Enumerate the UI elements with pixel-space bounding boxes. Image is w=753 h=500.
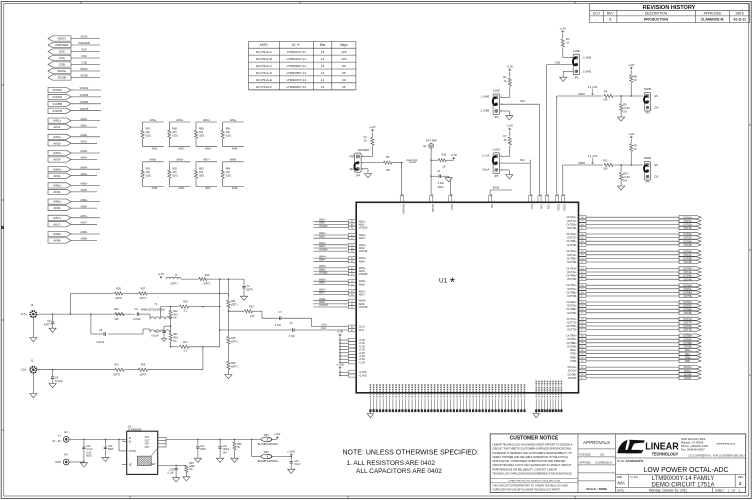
- svg-text:AIN7-: AIN7-: [319, 292, 326, 295]
- svg-text:HOWEVER, IT REMAINS THE CUSTOM: HOWEVER, IT REMAINS THE CUSTOMER'S RESPO…: [492, 451, 571, 455]
- svg-text:LOW POWER OCTAL-ADC: LOW POWER OCTAL-ADC: [644, 465, 729, 474]
- svg-text:AIN6-: AIN6-: [81, 204, 88, 208]
- svg-text:FB2: FB2: [264, 451, 269, 454]
- svg-text:CLK-: CLK-: [321, 327, 327, 330]
- svg-text:(OPT): (OPT): [113, 373, 120, 376]
- svg-text:JP2: JP2: [494, 116, 499, 119]
- svg-text:VERIFY PROPER AND RELIABLE OPE: VERIFY PROPER AND RELIABLE OPERATION IN …: [492, 455, 569, 459]
- svg-text:CLK-: CLK-: [359, 328, 365, 332]
- svg-text:MOSI: MOSI: [493, 187, 500, 190]
- svg-text:AIN6+: AIN6+: [176, 159, 184, 162]
- svg-text:VCM34: VCM34: [359, 249, 368, 253]
- svg-text:CSA: CSA: [59, 56, 65, 60]
- svg-text:OUT8A-: OUT8A-: [567, 337, 577, 341]
- svg-text:1.7mA: 1.7mA: [482, 155, 490, 158]
- svg-text:AIN5-: AIN5-: [53, 190, 61, 194]
- svg-text:AIN7+: AIN7+: [53, 216, 62, 220]
- svg-text:OUT: OUT: [145, 444, 150, 446]
- svg-text:OUT7A+: OUT7A+: [566, 317, 577, 321]
- svg-text:AIN2-: AIN2-: [319, 235, 326, 238]
- svg-text:1K: 1K: [503, 139, 506, 142]
- svg-text:AIN7+: AIN7+: [80, 214, 88, 218]
- svg-text:AIN5+: AIN5+: [80, 182, 88, 186]
- svg-text:AIN6-: AIN6-: [359, 282, 366, 286]
- svg-text:OUT7B-: OUT7B-: [567, 328, 577, 332]
- svg-text:EN: EN: [655, 164, 659, 167]
- svg-text:ECO: ECO: [593, 11, 600, 15]
- svg-text:+1.8V: +1.8V: [369, 126, 376, 129]
- svg-text:R19: R19: [114, 308, 119, 311]
- svg-text:SDOB: SDOB: [563, 204, 566, 211]
- svg-text:SDOB: SDOB: [80, 74, 88, 78]
- svg-text:+1.8V: +1.8V: [158, 273, 165, 276]
- svg-text:FRB-: FRB-: [685, 361, 691, 363]
- svg-text:+1.8V: +1.8V: [628, 64, 635, 67]
- svg-text:CLK+: CLK+: [359, 325, 366, 329]
- svg-text:AIN8-: AIN8-: [232, 187, 239, 190]
- svg-text:0201: 0201: [146, 174, 152, 177]
- svg-text:0.01uF: 0.01uF: [97, 341, 105, 344]
- svg-text:10K: 10K: [603, 168, 608, 171]
- svg-text:0603: 0603: [108, 448, 114, 451]
- svg-text:0.1uF: 0.1uF: [168, 472, 175, 475]
- svg-text:0.01uF: 0.01uF: [151, 334, 159, 337]
- svg-text:2.2uF: 2.2uF: [438, 182, 445, 185]
- svg-text:LANE: LANE: [493, 89, 500, 93]
- svg-text:AIN3+: AIN3+: [53, 151, 62, 155]
- svg-text:AIN2+: AIN2+: [176, 119, 184, 122]
- svg-text:VREF: VREF: [450, 204, 453, 211]
- svg-text:FRB+: FRB+: [570, 355, 577, 359]
- svg-text:SCK: SCK: [81, 48, 87, 52]
- svg-text:CSB: CSB: [555, 61, 560, 64]
- svg-text:1K: 1K: [634, 148, 637, 151]
- svg-text:CSB: CSB: [59, 63, 65, 67]
- svg-text:1K: 1K: [566, 42, 569, 45]
- svg-text:SDOA: SDOA: [557, 204, 560, 211]
- svg-text:FB1: FB1: [264, 434, 269, 437]
- svg-text:14: 14: [321, 64, 325, 68]
- svg-text:AIN2-: AIN2-: [178, 147, 185, 150]
- svg-text:OUT5B-: OUT5B-: [684, 296, 693, 298]
- svg-text:0.1uF: 0.1uF: [294, 463, 301, 466]
- svg-text:OUT6B-: OUT6B-: [567, 311, 577, 315]
- svg-text:AIN1-: AIN1-: [81, 123, 88, 127]
- svg-text:AIN8+: AIN8+: [80, 230, 88, 234]
- svg-text:0603: 0603: [200, 448, 206, 451]
- svg-text:100: 100: [114, 318, 119, 321]
- svg-text:14: 14: [321, 57, 325, 61]
- svg-text:AIN4+: AIN4+: [230, 119, 238, 122]
- svg-text:+1.8V: +1.8V: [507, 125, 514, 128]
- svg-text:VCM56: VCM56: [319, 271, 328, 274]
- svg-text:OUT7A-: OUT7A-: [684, 322, 693, 325]
- svg-text:VCM56: VCM56: [52, 102, 62, 106]
- svg-text:+1.8VD: +1.8VD: [359, 375, 367, 378]
- svg-text:02-11-11: 02-11-11: [733, 18, 746, 22]
- svg-text:R23: R23: [183, 301, 188, 304]
- svg-text:Bits: Bits: [320, 43, 326, 47]
- svg-text:-: -: [596, 18, 597, 22]
- svg-text:PERFORMANCE OR RELIABILITY. C: PERFORMANCE OR RELIABILITY. CONTACT LINE…: [492, 467, 557, 471]
- svg-text:+1.8V: +1.8V: [274, 433, 281, 436]
- svg-text:MOSI: MOSI: [81, 35, 88, 39]
- svg-text:AIN3+: AIN3+: [80, 149, 88, 153]
- svg-text:4.7pF: 4.7pF: [289, 335, 296, 338]
- svg-text:100: 100: [386, 169, 391, 172]
- svg-text:3V - 6V: 3V - 6V: [52, 439, 61, 443]
- svg-text:+1.8V: +1.8V: [507, 66, 514, 69]
- svg-text:EN: EN: [655, 95, 659, 98]
- svg-text:2: 2: [609, 18, 611, 22]
- svg-text:VCM78: VCM78: [319, 304, 328, 307]
- svg-text:LTM9008IY-14: LTM9008IY-14: [287, 71, 307, 75]
- svg-text:AIN2-: AIN2-: [53, 141, 61, 145]
- svg-text:1 LANE: 1 LANE: [583, 56, 592, 59]
- svg-text:VCM34: VCM34: [319, 248, 328, 251]
- svg-text:(OPT): (OPT): [247, 289, 254, 292]
- svg-text:*: *: [450, 276, 455, 290]
- svg-text:SHEET: SHEET: [715, 488, 724, 492]
- svg-text:OUT7B-: OUT7B-: [684, 330, 693, 332]
- svg-text:OUT7B+: OUT7B+: [566, 324, 577, 328]
- svg-text:SCK: SCK: [59, 50, 65, 54]
- svg-text:OUT6B+: OUT6B+: [566, 307, 577, 311]
- svg-text:VCM78: VCM78: [52, 109, 62, 113]
- svg-text:3.5mA: 3.5mA: [482, 169, 490, 172]
- svg-text:(OPT): (OPT): [231, 340, 238, 343]
- svg-text:OUT5A+: OUT5A+: [566, 283, 577, 287]
- svg-text:SCK: SCK: [530, 204, 533, 209]
- svg-text:SUPPLIED FOR USE WITH LINEAR T: SUPPLIED FOR USE WITH LINEAR TECHNOLOGY …: [492, 488, 561, 491]
- svg-text:OUT5B+: OUT5B+: [566, 290, 577, 294]
- svg-text:OUT8A-: OUT8A-: [684, 338, 693, 341]
- svg-text:0201: 0201: [172, 135, 178, 138]
- svg-text:OUT6A+: OUT6A+: [683, 301, 693, 304]
- svg-text:OUT3B+: OUT3B+: [566, 256, 577, 260]
- svg-text:0603: 0603: [86, 455, 92, 458]
- svg-text:LANE: LANE: [573, 49, 580, 53]
- svg-text:JP5: JP5: [494, 175, 499, 178]
- svg-text:2: 2: [362, 163, 363, 165]
- svg-text:AIN1+: AIN1+: [150, 119, 158, 122]
- svg-text:R14: R14: [205, 274, 210, 277]
- svg-text:OUT: OUT: [145, 437, 150, 439]
- svg-text:AIN3-: AIN3-: [81, 156, 88, 160]
- svg-text:(OPT): (OPT): [140, 373, 147, 376]
- svg-text:AIN2+: AIN2+: [80, 133, 88, 137]
- svg-text:AIN6+: AIN6+: [80, 198, 88, 202]
- svg-text:LTM9007IY-14: LTM9007IY-14: [287, 78, 307, 82]
- svg-text:AIN6-: AIN6-: [319, 282, 326, 285]
- svg-text:0201: 0201: [226, 135, 232, 138]
- svg-text:4.7pF: 4.7pF: [275, 324, 282, 327]
- svg-text:0.01uF: 0.01uF: [55, 380, 63, 383]
- svg-text:REV: REV: [607, 11, 614, 15]
- svg-text:AIN6+: AIN6+: [53, 200, 62, 204]
- svg-text:OUT3A-: OUT3A-: [684, 254, 693, 257]
- svg-text:JP6: JP6: [645, 181, 650, 184]
- svg-text:Monday, October 10, 2011: Monday, October 10, 2011: [649, 489, 688, 493]
- svg-text:AIN4-: AIN4-: [232, 147, 239, 150]
- svg-text:DCOB-: DCOB-: [568, 376, 576, 380]
- svg-text:LTM9011IY-14: LTM9011IY-14: [287, 50, 306, 54]
- svg-text:2 LANE: 2 LANE: [583, 70, 592, 73]
- svg-text:R27: R27: [141, 287, 146, 290]
- svg-text:R10: R10: [442, 154, 447, 157]
- svg-text:NOTE: UNLESS OTHERWISE SPECIFI: NOTE: UNLESS OTHERWISE SPECIFIED:: [343, 450, 479, 457]
- svg-text:REVISION HISTORY: REVISION HISTORY: [643, 5, 696, 11]
- svg-text:AIN6-: AIN6-: [53, 206, 61, 210]
- svg-text:DCOB+: DCOB+: [568, 372, 577, 376]
- svg-text:0.01uF: 0.01uF: [133, 318, 141, 321]
- svg-text:OUT8A+: OUT8A+: [566, 334, 577, 338]
- svg-text:DC1751A-B: DC1751A-B: [256, 57, 272, 61]
- svg-text:0201: 0201: [199, 174, 205, 177]
- svg-text:VCM12: VCM12: [359, 226, 368, 230]
- svg-text:VCM34: VCM34: [80, 93, 89, 97]
- svg-text:APPROVALS: APPROVALS: [583, 440, 610, 445]
- svg-text:Phone: (408)432-1900: Phone: (408)432-1900: [681, 444, 708, 448]
- svg-text:DCOA-: DCOA-: [684, 370, 692, 373]
- svg-text:REV.: REV.: [738, 475, 744, 479]
- svg-text:PAR/SER: PAR/SER: [407, 159, 418, 162]
- svg-text:TERM: TERM: [644, 156, 651, 160]
- svg-text:PAR/SER: PAR/SER: [402, 204, 405, 215]
- svg-text:0201: 0201: [172, 174, 178, 177]
- svg-text:PRODUCTION: PRODUCTION: [644, 18, 669, 22]
- svg-text:AIN7-: AIN7-: [81, 221, 88, 225]
- svg-text:AIN4-: AIN4-: [319, 259, 326, 262]
- svg-text:TECHNOLOGY APPLICATIONS ENGINE: TECHNOLOGY APPLICATIONS ENGINEERING FOR …: [492, 472, 572, 476]
- svg-text:APPLICATION. COMPONENT SUBSTI: APPLICATION. COMPONENT SUBSTITUTION AND …: [492, 459, 565, 463]
- svg-text:CLK-: CLK-: [21, 368, 27, 372]
- svg-text:R15: R15: [114, 364, 119, 367]
- svg-text:TECHNOLOGY: TECHNOLOGY: [652, 452, 679, 458]
- svg-text:OUT4B-: OUT4B-: [567, 277, 577, 281]
- svg-text:AIN7-: AIN7-: [359, 293, 366, 297]
- svg-text:1K: 1K: [442, 166, 445, 169]
- svg-text:AIN8+: AIN8+: [53, 232, 62, 236]
- svg-text:DC1751A-F: DC1751A-F: [256, 85, 272, 89]
- svg-text:THIS CIRCUIT IS PROPRIETARY TO: THIS CIRCUIT IS PROPRIETARY TO LINEAR TE…: [492, 484, 568, 487]
- svg-text:OUT7A+: OUT7A+: [683, 318, 693, 321]
- svg-text:DC1751A-E: DC1751A-E: [256, 78, 272, 82]
- svg-text:AIN2-: AIN2-: [359, 236, 366, 240]
- svg-text:Fax: (408)434-0507: Fax: (408)434-0507: [681, 447, 705, 451]
- svg-text:DATE:: DATE:: [617, 488, 625, 492]
- svg-text:14: 14: [321, 78, 325, 82]
- svg-text:BLM18PG300SN1L: BLM18PG300SN1L: [258, 443, 280, 446]
- svg-text:EXT REF: EXT REF: [426, 139, 437, 143]
- svg-text:IN: IN: [129, 441, 132, 443]
- svg-text:PAR/SER: PAR/SER: [358, 148, 369, 152]
- svg-text:VCM34: VCM34: [52, 95, 62, 99]
- svg-text:AIN3+: AIN3+: [203, 119, 211, 122]
- svg-text:VCTRL: VCTRL: [129, 451, 137, 453]
- svg-text:OUT: OUT: [145, 447, 150, 449]
- svg-text:AIN3-: AIN3-: [205, 147, 212, 150]
- svg-text:JP3: JP3: [645, 112, 650, 115]
- svg-text:FRB-: FRB-: [571, 359, 577, 363]
- svg-text:N/A: N/A: [618, 481, 625, 486]
- svg-text:CIRCUIT THAT MEETS CUSTOMER-SU: CIRCUIT THAT MEETS CUSTOMER-SUPPLIED SPE…: [492, 447, 572, 451]
- svg-text:AIN3-: AIN3-: [53, 158, 61, 162]
- svg-text:OUT6A-: OUT6A-: [567, 304, 577, 308]
- svg-text:FRA+: FRA+: [685, 349, 692, 352]
- svg-text:MOSI: MOSI: [58, 37, 66, 41]
- svg-text:0201: 0201: [199, 135, 205, 138]
- svg-text:R20: R20: [249, 305, 254, 308]
- svg-text:3: 3: [362, 169, 363, 171]
- svg-text:AIN4-: AIN4-: [53, 174, 61, 178]
- svg-text:OUT1B+: OUT1B+: [566, 222, 577, 226]
- svg-text:AIN1+: AIN1+: [53, 119, 62, 123]
- svg-text:DC1751A-D: DC1751A-D: [256, 71, 273, 75]
- svg-text:AIN1-: AIN1-: [53, 125, 61, 129]
- svg-text:1 LANE: 1 LANE: [481, 96, 490, 99]
- svg-text:0201: 0201: [146, 135, 152, 138]
- svg-text:LTM9010IY-14: LTM9010IY-14: [287, 57, 307, 61]
- svg-text:ASSY: ASSY: [260, 43, 269, 47]
- svg-text:OUT2B-: OUT2B-: [567, 243, 577, 247]
- svg-text:+1.8V: +1.8V: [628, 133, 635, 136]
- svg-text:0603: 0603: [438, 186, 444, 189]
- svg-text:3K: 3K: [237, 446, 240, 449]
- svg-text:Milpitas, CA 95035: Milpitas, CA 95035: [681, 440, 704, 444]
- svg-text:AIN2+: AIN2+: [53, 135, 62, 139]
- svg-text:ICS: ICS: [600, 453, 605, 456]
- svg-text:LINEAR: LINEAR: [645, 440, 679, 452]
- svg-text:FRA+: FRA+: [570, 348, 577, 352]
- svg-text:AIN7+: AIN7+: [203, 159, 211, 162]
- svg-text:OUT3A-: OUT3A-: [567, 253, 577, 257]
- svg-text:CLARENCE M: CLARENCE M: [595, 461, 611, 464]
- svg-text:100: 100: [250, 315, 255, 318]
- svg-text:SDI: SDI: [490, 204, 493, 208]
- svg-text:5.1: 5.1: [184, 310, 188, 313]
- svg-text:OUT5A-: OUT5A-: [684, 288, 693, 291]
- svg-text:80: 80: [342, 64, 346, 68]
- svg-text:OUT4A+: OUT4A+: [683, 268, 693, 271]
- svg-text:OF: OF: [732, 488, 736, 492]
- svg-text:DC1751A-A: DC1751A-A: [256, 50, 272, 54]
- svg-text:TITLE:: TITLE:: [617, 459, 625, 463]
- svg-text:DIS: DIS: [655, 107, 660, 110]
- svg-text:CSB: CSB: [81, 61, 87, 65]
- svg-text:1K: 1K: [364, 139, 367, 142]
- svg-text:AIN1-: AIN1-: [152, 147, 159, 150]
- svg-text:DATE: DATE: [736, 11, 744, 15]
- svg-text:(OPT): (OPT): [115, 297, 122, 300]
- svg-text:VCM12: VCM12: [319, 225, 328, 228]
- svg-text:OUT1B-: OUT1B-: [684, 228, 693, 230]
- svg-text:(OPT): (OPT): [140, 297, 147, 300]
- svg-text:SENSE: SENSE: [431, 204, 434, 213]
- svg-text:1: 1: [501, 96, 502, 98]
- svg-text:DCOA+: DCOA+: [568, 365, 577, 369]
- svg-text:CSA: CSA: [539, 204, 542, 209]
- svg-text:VCM56: VCM56: [80, 100, 89, 104]
- svg-text:2 LANE: 2 LANE: [481, 110, 490, 113]
- svg-text:40: 40: [342, 78, 346, 82]
- svg-text:OUT2B+: OUT2B+: [566, 239, 577, 243]
- svg-text:JP4: JP4: [356, 175, 361, 178]
- svg-text:IC NO.: IC NO.: [631, 475, 639, 479]
- svg-text:OUT8A+: OUT8A+: [683, 335, 693, 338]
- svg-text:OUT3B-: OUT3B-: [684, 262, 693, 264]
- svg-text:OUT1B-: OUT1B-: [567, 226, 577, 230]
- svg-text:10K: 10K: [603, 99, 608, 102]
- svg-text:OUT3A+: OUT3A+: [566, 249, 577, 253]
- svg-text:APPROVED: APPROVED: [704, 11, 722, 15]
- svg-text:OUT5A-: OUT5A-: [567, 287, 577, 291]
- svg-text:CUSTOMER NOTICE: CUSTOMER NOTICE: [510, 436, 559, 442]
- svg-text:FRA-: FRA-: [571, 352, 577, 356]
- svg-text:IN: IN: [129, 438, 132, 440]
- svg-text:3.3_AUX: 3.3_AUX: [588, 86, 598, 89]
- svg-text:OUT: OUT: [145, 440, 150, 442]
- svg-text:DIS: DIS: [655, 176, 660, 179]
- svg-text:OUT4A+: OUT4A+: [566, 266, 577, 270]
- svg-text:OUT5A+: OUT5A+: [683, 284, 693, 287]
- svg-text:CSB: CSB: [547, 204, 550, 209]
- svg-text:BLM18PG300SN1L: BLM18PG300SN1L: [258, 460, 280, 463]
- svg-text:VCM12: VCM12: [52, 88, 62, 92]
- svg-text:R26: R26: [116, 287, 121, 290]
- svg-text:SDOA: SDOA: [80, 67, 88, 71]
- svg-text:OUT1A-: OUT1A-: [567, 219, 577, 223]
- svg-text:(OPT): (OPT): [231, 365, 238, 368]
- svg-text:AIN4+: AIN4+: [80, 165, 88, 169]
- svg-text:+1.8VD: +1.8VD: [287, 450, 295, 453]
- svg-text:DC1751A-C: DC1751A-C: [256, 64, 273, 68]
- svg-text:CSA: CSA: [81, 54, 87, 58]
- svg-text:AIN2-: AIN2-: [81, 140, 88, 144]
- svg-text:105: 105: [341, 57, 346, 61]
- svg-text:SCK: SCK: [520, 159, 525, 162]
- svg-text:AIN8+: AIN8+: [230, 159, 238, 162]
- svg-text:AIN5-: AIN5-: [152, 187, 159, 190]
- svg-text:OUT8B-: OUT8B-: [684, 347, 693, 349]
- svg-text:VCM56: VCM56: [359, 272, 368, 276]
- svg-text:1K: 1K: [503, 80, 506, 83]
- svg-text:OUT8B+: OUT8B+: [566, 341, 577, 345]
- svg-text:+1.8VD: +1.8VD: [336, 363, 344, 366]
- svg-text:AIN4-: AIN4-: [81, 172, 88, 176]
- svg-text:14: 14: [321, 85, 325, 89]
- svg-text:VCM12: VCM12: [80, 86, 89, 90]
- svg-text:1K: 1K: [634, 79, 637, 82]
- svg-text:OUT3B-: OUT3B-: [567, 260, 577, 264]
- svg-text:DCOB-: DCOB-: [684, 378, 692, 380]
- svg-text:14: 14: [321, 71, 325, 75]
- svg-text:+1.8V: +1.8V: [337, 331, 344, 334]
- svg-text:+1.8V: +1.8V: [359, 361, 366, 364]
- svg-text:VCM78: VCM78: [359, 305, 368, 309]
- svg-text:AIN6-: AIN6-: [178, 187, 185, 190]
- svg-text:SET: SET: [151, 464, 156, 466]
- svg-text:JP1: JP1: [574, 76, 579, 79]
- svg-text:125: 125: [341, 50, 346, 54]
- svg-text:AIN8-: AIN8-: [53, 239, 61, 243]
- svg-text:AIN5-: AIN5-: [81, 188, 88, 192]
- svg-text:3.3_AUX: 3.3_AUX: [588, 155, 598, 158]
- svg-text:Msps: Msps: [340, 43, 348, 47]
- svg-text:V+: V+: [58, 433, 62, 437]
- svg-text:OUT4B+: OUT4B+: [566, 274, 577, 278]
- svg-text:5.1: 5.1: [184, 350, 188, 353]
